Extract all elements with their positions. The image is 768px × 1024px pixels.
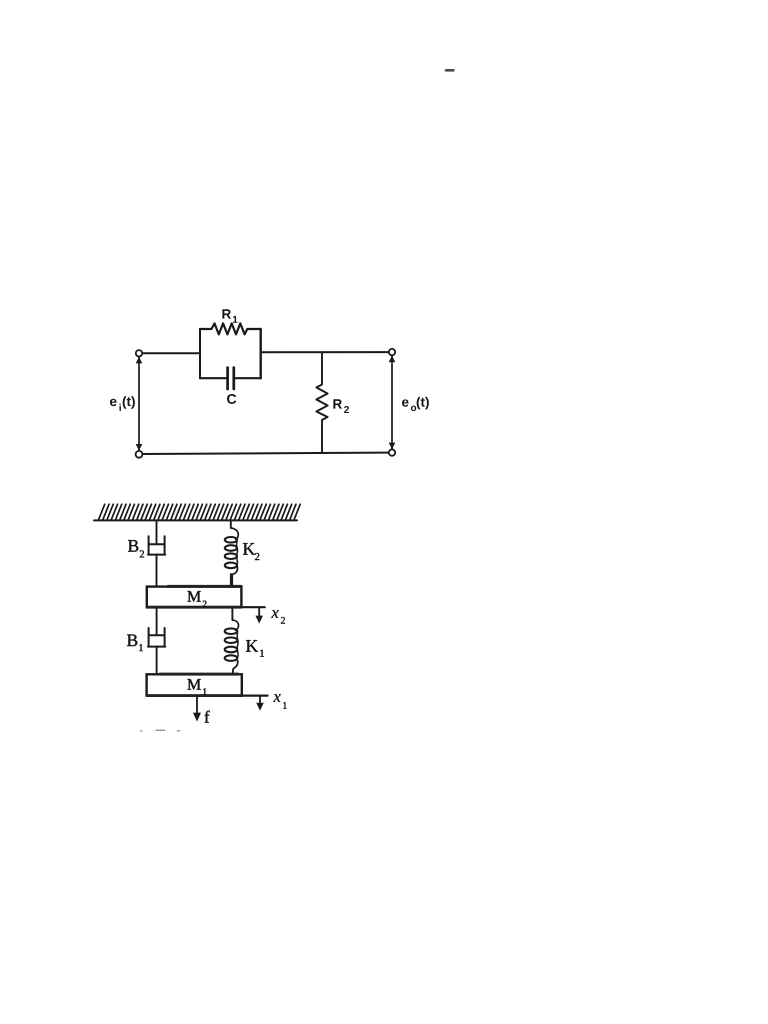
label e_o(t) [402,399,409,406]
damper B1 rod lower [156,647,158,675]
mass M2 bottom edge emphasis [147,606,241,609]
label B2 [128,540,138,552]
ceiling hatching [99,504,301,520]
spring K2 coil loop 3 [225,553,237,559]
spring K2 bottom stub [230,575,233,587]
arrow f (force) [196,696,198,714]
terminal input bottom [136,451,143,458]
ceiling baseline [94,519,297,521]
label K2 [243,543,255,554]
damper B1 cylinder [148,628,165,647]
label M2 [187,591,200,601]
node x2 line from M2 [241,606,264,608]
wire top-left (input to R1C box) [142,352,199,354]
R1C box right edge [260,329,262,378]
damper B2 rod lower [156,555,158,587]
spring K1 coil loop 4 [225,655,238,661]
scan specks bottom [141,729,180,732]
label f [205,711,210,723]
label x2 [271,610,278,618]
spring K1 bottom hook [233,661,238,675]
damper B2 piston plate [150,543,164,545]
spring K2 right edge [236,542,237,566]
spring K1 coil loop 2 [225,637,238,643]
damper B1 rod upper [156,607,158,635]
resistor R1 (top edge zigzag) [200,323,261,334]
damper B2 cylinder [148,536,165,554]
damper B1 piston plate [150,634,164,636]
spring K2 bottom hook [232,566,238,575]
arrow x2 [258,608,260,616]
label C [227,394,236,404]
wire left branch e_i [138,357,140,451]
spring K1 coil loop 3 [225,647,238,653]
capacitor C (bottom edge plates) [200,377,261,379]
label M1 [187,679,200,689]
mass M1 top edge emphasis [160,673,238,676]
wire bottom rail [142,453,391,454]
spring K2 coil loop 4 [225,563,237,569]
arrowhead e_o down [389,443,396,450]
label x1 [273,694,280,702]
terminal input top [136,350,142,356]
spring K1 right edge [236,633,239,657]
spring K1 top hook [232,620,238,630]
R1C box left edge [199,329,201,378]
mass M1 bottom edge emphasis [147,694,242,697]
label K1 [246,640,258,651]
arrowhead e_i down [136,444,143,451]
spring K1 top stub [231,607,233,620]
damper B2 rod upper [156,520,158,544]
node x1 line from M1 [242,694,268,696]
arrow x1 [259,697,261,703]
label R1 [222,309,231,318]
wire top-right (R1C box to output node) [262,351,390,353]
wire right branch e_o [391,356,393,450]
spring K2 coil loop 1 [225,537,237,543]
spring K2 coil loop 2 [225,545,237,551]
label B1 [127,635,137,647]
label e_i(t) [110,399,117,406]
stray scan dash top center [446,69,453,72]
mass M2 top edge emphasis [168,585,241,588]
terminal output top [389,349,395,355]
resistor R2 (vertical) [316,352,327,453]
label R2 [333,399,342,408]
terminal output bottom [389,449,395,455]
spring K2 top stub [230,520,232,528]
spring K1 coil loop 1 [225,628,238,634]
arrowhead e_i up [136,357,143,364]
mass M2 [147,587,242,608]
arrowhead e_o up [389,356,396,363]
spring K2 top hook [231,528,238,539]
mass M1 [147,674,242,695]
